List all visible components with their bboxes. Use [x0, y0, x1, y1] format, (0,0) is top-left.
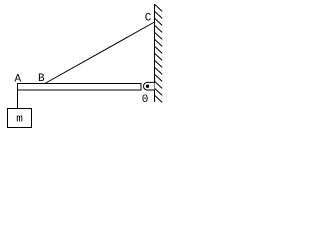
svg-text:C: C [145, 13, 152, 25]
svg-text:m: m [16, 114, 23, 126]
svg-text:A: A [15, 74, 22, 86]
svg-text:0: 0 [142, 94, 149, 106]
svg-text:B: B [38, 73, 45, 85]
